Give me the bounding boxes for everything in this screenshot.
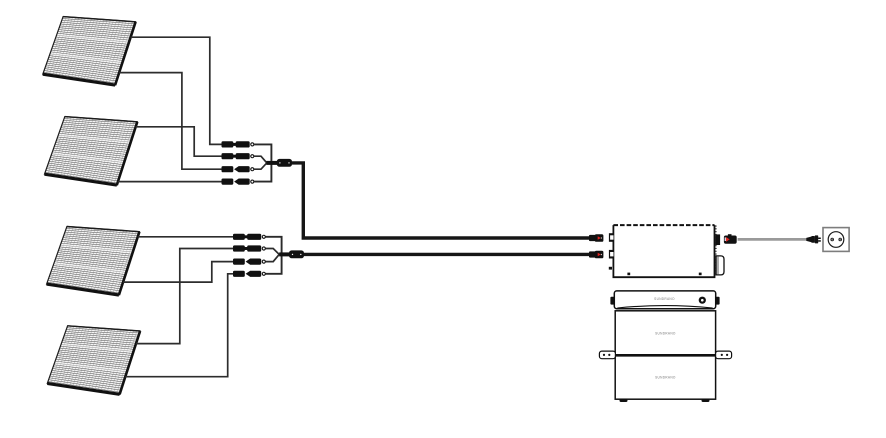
inverter DC input plug 2 — [589, 251, 603, 259]
Y-branch stub (string B) — [279, 252, 289, 256]
wire PV4 positive lead — [136, 249, 233, 344]
inverter AC output port — [715, 234, 720, 245]
battery side clip right — [716, 297, 720, 305]
series jumper wire (string A) — [254, 144, 271, 181]
solar panel PV4 — [47, 326, 140, 395]
battery module 1 — [615, 311, 715, 355]
solar panel PV2 — [45, 117, 138, 186]
battery lid seam — [617, 306, 712, 308]
MC4 connector pair 1 (string A) — [222, 141, 254, 147]
inverter small stud — [609, 267, 612, 270]
inverter side seam — [715, 226, 717, 276]
svg-text:SUNDRANO: SUNDRANO — [655, 331, 676, 335]
solar panel PV1 — [43, 17, 136, 86]
Y-branch wires (string B) — [266, 249, 280, 262]
MC4 connector pair 2 (string B) — [233, 245, 265, 251]
battery foot right — [702, 399, 710, 402]
MC4 connector pair 2 (string A) — [222, 153, 254, 159]
AC power cord — [738, 238, 807, 241]
DC trunk cable (string A) — [292, 163, 590, 238]
battery knob — [699, 297, 706, 304]
inverter foot right — [699, 273, 702, 276]
AC wall plug — [806, 235, 821, 243]
MC4 connector pair 3 (string B) — [233, 259, 265, 265]
wire PV3 negative lead — [123, 262, 233, 283]
battery top control unit — [610, 291, 719, 309]
wire PV2 positive lead — [136, 127, 222, 156]
inverter DC input port 2 — [609, 250, 614, 259]
battery mounting bracket left — [599, 351, 615, 359]
Y-branch stub (string A) — [266, 161, 277, 165]
MC4 connector pair 4 (string A) — [222, 179, 254, 185]
micro-inverter body — [613, 225, 714, 277]
wire PV2 negative lead — [118, 181, 222, 183]
DC trunk connector (string B) — [289, 250, 304, 258]
MC4 connector pair 4 (string B) — [233, 271, 265, 277]
svg-text:SUNDRANO: SUNDRANO — [655, 376, 676, 380]
battery side clip left — [610, 297, 614, 305]
battery mounting bracket right — [716, 351, 732, 359]
series jumper wire (string B) — [266, 237, 282, 274]
inverter DC input port 1 — [609, 233, 614, 242]
wire PV4 negative lead — [125, 274, 233, 377]
DC trunk connector (string A) — [277, 159, 292, 167]
wall socket — [823, 228, 849, 252]
MC4 connector pair 1 (string B) — [233, 234, 265, 240]
wire PV1 negative lead — [119, 73, 221, 170]
solar panel PV3 — [47, 227, 140, 296]
Y-branch wires (string A) — [254, 156, 267, 169]
wire PV3 positive lead — [138, 236, 233, 238]
svg-text:SUNDRANO: SUNDRANO — [654, 297, 675, 301]
MC4 connector pair 3 (string A) — [222, 166, 254, 172]
AC cord connector — [724, 234, 737, 244]
inverter DC input plug 1 — [589, 234, 603, 242]
inverter mounting bracket — [716, 256, 724, 275]
DC trunk cable (string B) — [304, 253, 590, 256]
inverter foot left — [627, 273, 630, 276]
battery module 2 — [615, 355, 715, 399]
battery foot left — [620, 399, 628, 402]
wire PV1 positive lead — [131, 37, 222, 144]
